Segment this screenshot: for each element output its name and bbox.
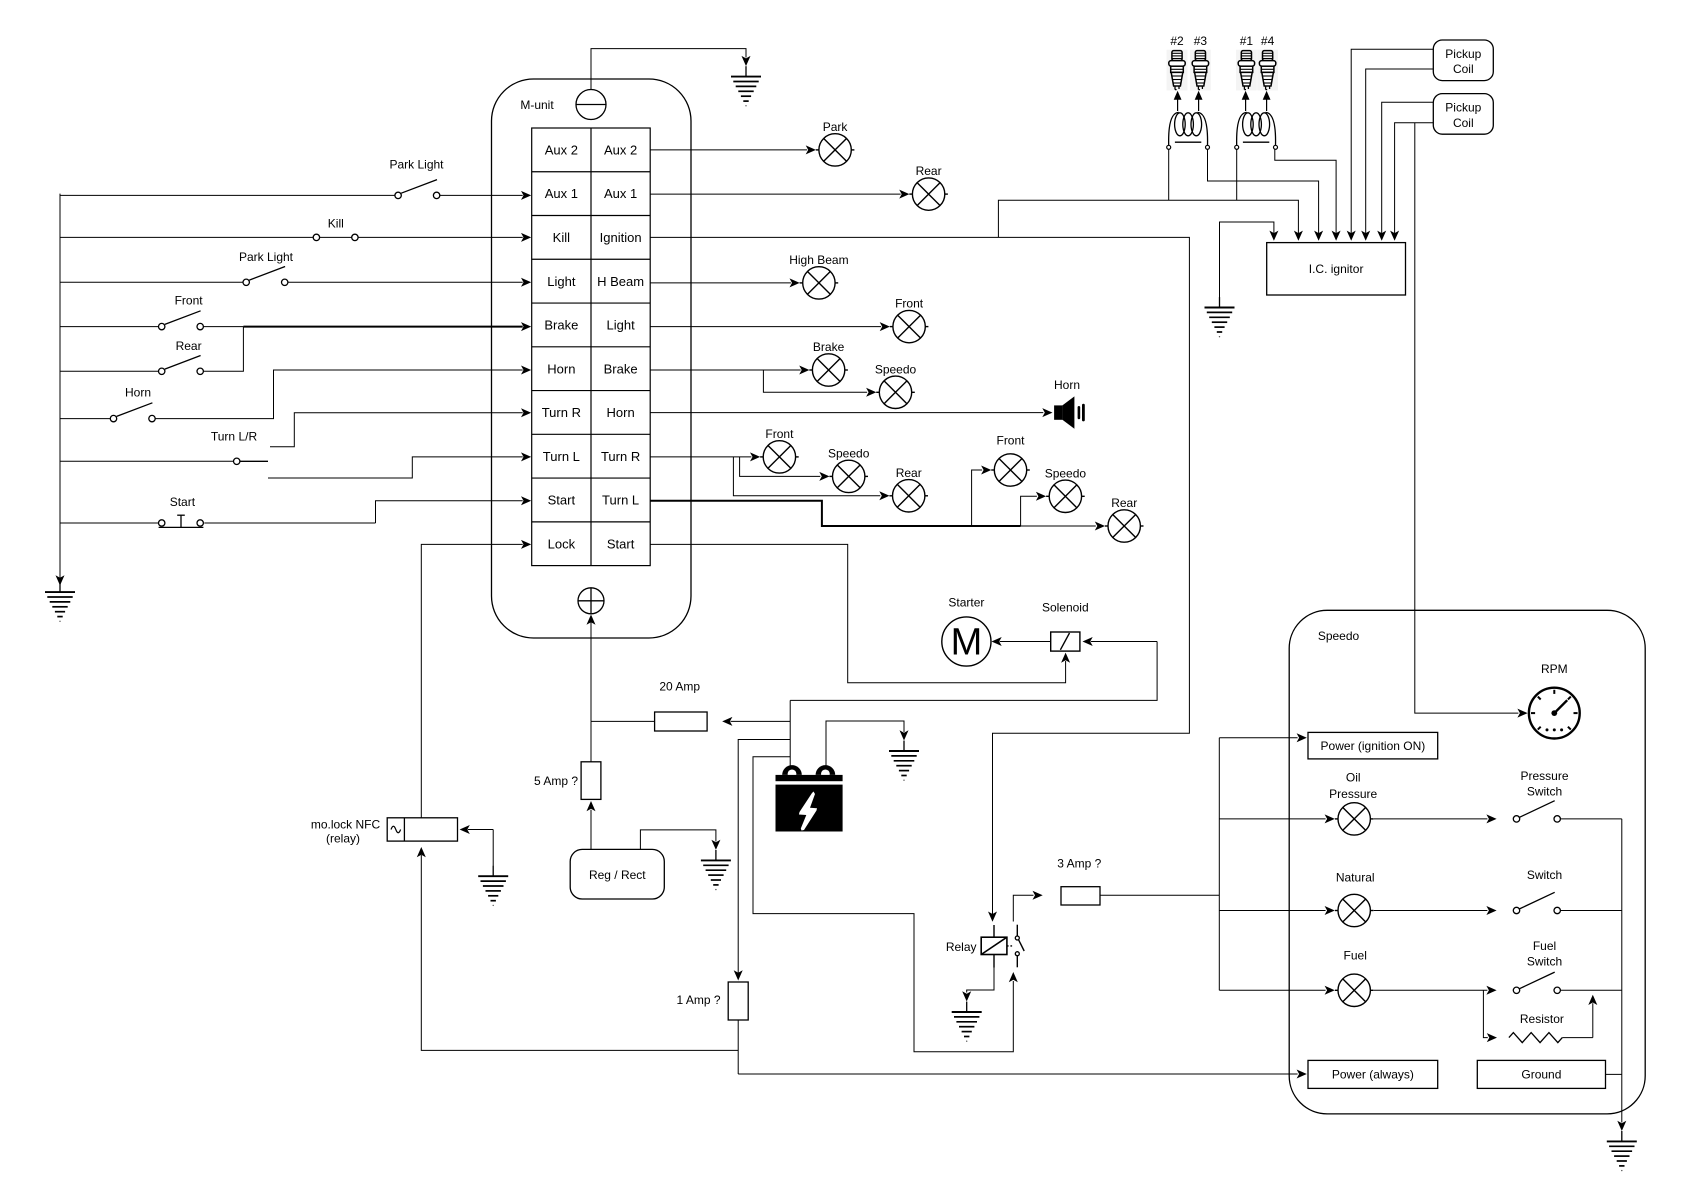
svg-text:Fuel: Fuel xyxy=(1533,939,1556,953)
svg-text:Front: Front xyxy=(765,427,794,441)
svg-text:Fuel: Fuel xyxy=(1344,948,1367,962)
svg-text:Aux 2: Aux 2 xyxy=(545,142,578,157)
svg-text:Light: Light xyxy=(606,318,635,333)
svg-text:Power (always): Power (always) xyxy=(1332,1068,1414,1082)
svg-text:Park Light: Park Light xyxy=(389,157,444,171)
svg-text:Brake: Brake xyxy=(604,361,638,376)
svg-text:Aux 1: Aux 1 xyxy=(604,186,637,201)
svg-text:Ignition: Ignition xyxy=(600,230,642,245)
svg-text:Turn L: Turn L xyxy=(602,493,639,508)
svg-text:Horn: Horn xyxy=(607,405,635,420)
svg-text:Aux 2: Aux 2 xyxy=(604,142,637,157)
svg-text:Starter: Starter xyxy=(948,595,984,609)
svg-text:Rear: Rear xyxy=(176,339,202,353)
svg-text:Aux 1: Aux 1 xyxy=(545,186,578,201)
svg-text:Solenoid: Solenoid xyxy=(1042,600,1089,614)
svg-text:#4: #4 xyxy=(1261,34,1275,48)
svg-text:Kill: Kill xyxy=(553,230,570,245)
svg-text:#3: #3 xyxy=(1194,34,1208,48)
svg-text:Turn L: Turn L xyxy=(543,449,580,464)
svg-text:Rear: Rear xyxy=(916,164,942,178)
svg-text:Light: Light xyxy=(547,274,576,289)
svg-text:Coil: Coil xyxy=(1453,116,1474,130)
svg-text:M-unit: M-unit xyxy=(520,98,554,112)
svg-text:Lock: Lock xyxy=(548,536,576,551)
svg-text:Pickup: Pickup xyxy=(1445,101,1481,115)
svg-text:Power (ignition ON): Power (ignition ON) xyxy=(1321,739,1426,753)
svg-text:Pressure: Pressure xyxy=(1329,787,1377,801)
svg-text:Kill: Kill xyxy=(328,217,344,231)
svg-text:Horn: Horn xyxy=(125,386,151,400)
svg-text:#2: #2 xyxy=(1170,34,1184,48)
svg-text:Start: Start xyxy=(548,493,576,508)
svg-text:3 Amp ?: 3 Amp ? xyxy=(1057,857,1101,871)
svg-text:Switch: Switch xyxy=(1527,784,1562,798)
svg-text:Turn R: Turn R xyxy=(542,405,581,420)
svg-text:Brake: Brake xyxy=(544,318,578,333)
svg-text:Speedo: Speedo xyxy=(875,362,917,376)
svg-text:Turn L/R: Turn L/R xyxy=(211,430,258,444)
svg-text:H Beam: H Beam xyxy=(597,274,644,289)
svg-text:Brake: Brake xyxy=(813,340,845,354)
svg-text:mo.lock NFC: mo.lock NFC xyxy=(311,817,381,831)
svg-text:(relay): (relay) xyxy=(326,832,360,846)
svg-text:Park Light: Park Light xyxy=(239,250,294,264)
svg-text:Resistor: Resistor xyxy=(1520,1012,1564,1026)
svg-text:Pickup: Pickup xyxy=(1445,47,1481,61)
svg-text:Start: Start xyxy=(607,536,635,551)
svg-text:Relay: Relay xyxy=(946,940,977,954)
svg-text:1 Amp ?: 1 Amp ? xyxy=(676,993,720,1007)
svg-text:Oil: Oil xyxy=(1346,771,1361,785)
svg-text:Speedo: Speedo xyxy=(828,446,870,460)
svg-text:Natural: Natural xyxy=(1336,871,1375,885)
svg-text:Start: Start xyxy=(170,495,196,509)
svg-text:Speedo: Speedo xyxy=(1318,629,1360,643)
svg-text:High Beam: High Beam xyxy=(789,253,848,267)
svg-text:Front: Front xyxy=(175,294,204,308)
svg-text:Horn: Horn xyxy=(547,361,575,376)
svg-text:Switch: Switch xyxy=(1527,955,1562,969)
svg-text:I.C. ignitor: I.C. ignitor xyxy=(1309,262,1364,276)
svg-text:Park: Park xyxy=(823,120,849,134)
svg-text:Horn: Horn xyxy=(1054,378,1080,392)
svg-text:Switch: Switch xyxy=(1527,868,1562,882)
svg-text:Ground: Ground xyxy=(1521,1068,1561,1082)
svg-text:Reg / Rect: Reg / Rect xyxy=(589,868,646,882)
svg-text:Rear: Rear xyxy=(1111,496,1137,510)
svg-text:Turn R: Turn R xyxy=(601,449,640,464)
svg-text:RPM: RPM xyxy=(1541,662,1568,676)
svg-text:20 Amp: 20 Amp xyxy=(659,679,700,693)
svg-text:#1: #1 xyxy=(1240,34,1254,48)
svg-text:Rear: Rear xyxy=(896,466,922,480)
svg-text:Pressure: Pressure xyxy=(1520,769,1568,783)
svg-text:Front: Front xyxy=(895,297,924,311)
svg-text:5 Amp ?: 5 Amp ? xyxy=(534,774,578,788)
svg-text:M: M xyxy=(951,622,983,664)
svg-text:Front: Front xyxy=(996,434,1025,448)
svg-text:Speedo: Speedo xyxy=(1045,466,1087,480)
svg-text:Coil: Coil xyxy=(1453,62,1474,76)
